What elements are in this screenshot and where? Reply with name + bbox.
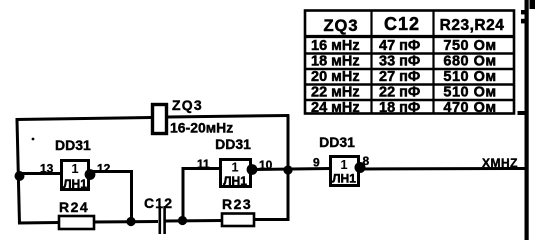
svg-text:510 Ом: 510 Ом: [443, 85, 496, 101]
svg-text:1: 1: [71, 161, 78, 176]
svg-text:16 мHz: 16 мHz: [311, 38, 360, 54]
svg-text:10: 10: [259, 158, 273, 172]
svg-text:13: 13: [40, 162, 54, 176]
svg-text:27 пФ: 27 пФ: [379, 69, 420, 85]
svg-text:22 мHz: 22 мHz: [311, 85, 360, 101]
svg-text:47 пФ: 47 пФ: [379, 38, 420, 54]
svg-text:R24: R24: [59, 199, 89, 215]
svg-text:20 мHz: 20 мHz: [311, 69, 360, 85]
svg-text:510 Ом: 510 Ом: [443, 69, 496, 85]
svg-text:9: 9: [313, 156, 320, 170]
svg-text:18 мHz: 18 мHz: [311, 54, 360, 70]
svg-text:C12: C12: [144, 195, 173, 211]
svg-text:DD31: DD31: [319, 134, 355, 150]
svg-text:DD31: DD31: [215, 136, 251, 152]
svg-text:ZQ3: ZQ3: [323, 17, 358, 35]
svg-text:750 Ом: 750 Ом: [443, 38, 496, 54]
svg-text:ЛН1: ЛН1: [223, 174, 247, 188]
svg-text:22 пФ: 22 пФ: [379, 85, 420, 101]
svg-text:ЛН1: ЛН1: [332, 172, 356, 186]
svg-text:R23,R24: R23,R24: [440, 17, 505, 34]
svg-text:680 Ом: 680 Ом: [443, 54, 496, 70]
svg-text:470 Ом: 470 Ом: [443, 100, 496, 116]
svg-text:11: 11: [197, 157, 210, 171]
svg-text:1: 1: [231, 160, 238, 175]
svg-text:ZQ3: ZQ3: [172, 97, 203, 113]
svg-text:12: 12: [97, 162, 111, 176]
svg-text:24 мHz: 24 мHz: [311, 100, 360, 116]
svg-text:DD31: DD31: [55, 137, 91, 153]
svg-text:18 пФ: 18 пФ: [379, 100, 420, 116]
svg-text:ЛН1: ЛН1: [63, 177, 87, 191]
svg-text:16-20мHz: 16-20мHz: [170, 120, 233, 136]
svg-text:XMHZ: XMHZ: [482, 156, 518, 170]
svg-text:1: 1: [340, 157, 347, 172]
svg-text:C12: C12: [384, 14, 420, 34]
svg-text:33 пФ: 33 пФ: [379, 54, 420, 70]
svg-text:R23: R23: [222, 196, 252, 212]
